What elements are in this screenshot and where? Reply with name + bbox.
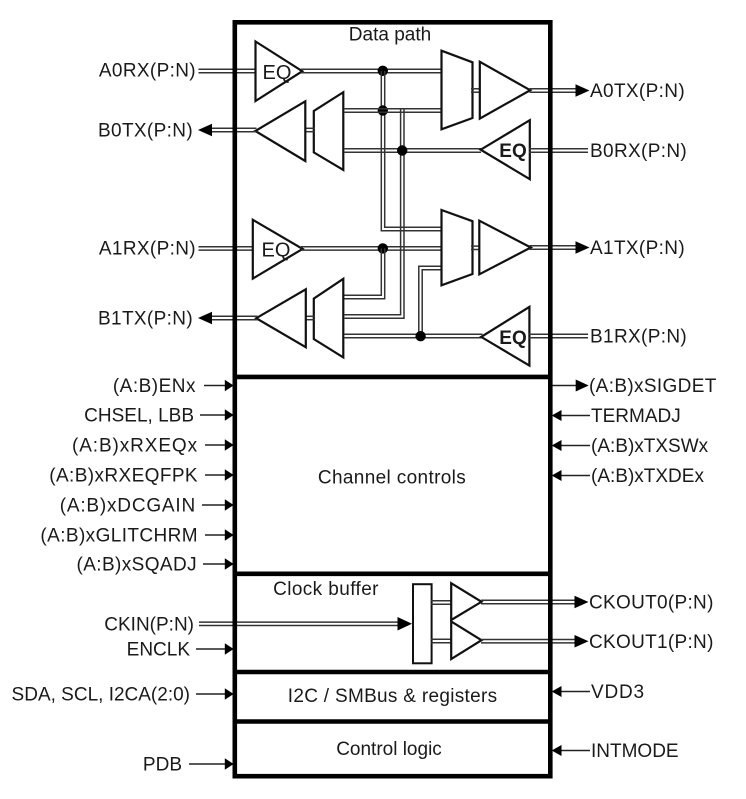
- svg-text:CKIN(P:N): CKIN(P:N): [104, 615, 194, 636]
- label Clock buffer: [273, 579, 379, 600]
- svg-text:B1TX(P:N): B1TX(P:N): [98, 309, 193, 330]
- svg-text:SDA, SCL, I2CA(2:0): SDA, SCL, I2CA(2:0): [12, 685, 190, 706]
- label SDA, SCL, I2CA(2:0): [12, 685, 190, 706]
- svg-text:(A:B)xRXEQFPK: (A:B)xRXEQFPK: [49, 466, 198, 487]
- mux trapezoid A1TX select: [442, 210, 473, 285]
- wire PDB control line: [189, 763, 227, 765]
- divider: channel controls / clock buffer: [233, 571, 553, 576]
- arrow INTMODE into chip: [552, 745, 562, 756]
- wire A1RX input pair: [199, 247, 256, 250]
- wire (A:B)xTXSWx control line: [559, 445, 590, 447]
- arrow B0TX output: [198, 124, 212, 137]
- wire (A:B)xDCGAIN control line: [202, 504, 227, 506]
- arrow VDD3 into chip: [552, 686, 562, 697]
- wire A1 mux to driver pair: [471, 246, 481, 249]
- label (A:B)xRXEQFPK: [49, 466, 198, 487]
- arrow (A:B)xGLITCHRM into chip: [225, 529, 234, 540]
- label (A:B)xSQADJ: [76, 555, 197, 576]
- arrow CKOUT0 output: [575, 596, 589, 609]
- arrow (A:B)xSIGDET out of chip: [576, 380, 589, 392]
- arrow A0TX output: [576, 84, 590, 97]
- wire (A:B)xSIGDET line: [553, 385, 578, 387]
- wire B0RX input pair: [529, 149, 588, 152]
- wire B1 mux output pair: [305, 316, 315, 319]
- arrow (A:B)xTXSWx into chip: [552, 440, 562, 451]
- svg-text:I2C / SMBus & registers: I2C / SMBus & registers: [288, 686, 498, 707]
- wire B0TX output pair: [211, 128, 257, 131]
- output driver B1TX: [256, 289, 306, 347]
- svg-text:(A:B)xSQADJ: (A:B)xSQADJ: [76, 555, 197, 576]
- wire (A:B)xGLITCHRM control line: [205, 534, 227, 536]
- arrow CKIN into clock mux: [398, 617, 413, 631]
- divider: clock buffer / I2C registers: [233, 670, 553, 675]
- mux trapezoid A0TX select: [442, 51, 473, 130]
- divider: I2C registers / control logic: [233, 719, 553, 724]
- arrow SDA SCL I2CA into chip: [225, 688, 234, 699]
- wire (A:B)xTXDEx control line: [559, 475, 590, 477]
- wire B0 mux output pair: [305, 128, 315, 131]
- arrow CHSEL, LBB into chip: [225, 409, 234, 420]
- label ENCLK: [127, 640, 191, 661]
- label (A:B)xDCGAIN: [60, 496, 196, 517]
- label VDD3: [591, 682, 645, 703]
- output driver A1TX: [479, 221, 531, 275]
- wire vertical V3 from A1EQ down to B1 mux: [344, 248, 385, 298]
- arrow (A:B)xRXEQFPK into chip: [225, 469, 234, 480]
- label (A:B)ENx: [113, 376, 196, 397]
- label I2C / SMBus &amp; registers: [288, 686, 498, 707]
- svg-text:(A:B)xGLITCHRM: (A:B)xGLITCHRM: [40, 526, 198, 547]
- svg-text:A1TX(P:N): A1TX(P:N): [590, 238, 685, 259]
- EQ amplifier B0 (receive equalizer): [481, 120, 530, 179]
- arrow (A:B)xTXDEx into chip: [552, 470, 562, 481]
- wire CKIN input pair: [199, 622, 399, 625]
- IC outer boundary box: [235, 22, 551, 776]
- arrow (A:B)ENx into chip: [225, 380, 234, 391]
- wire A0 EQ output pair to mux: [301, 69, 443, 72]
- label B0RX(P:N): [590, 141, 687, 162]
- arrow CKOUT1 output: [575, 635, 589, 648]
- wire (A:B)xSQADJ control line: [203, 563, 227, 565]
- wire A1TX output pair: [530, 246, 578, 249]
- svg-text:EQ: EQ: [499, 141, 526, 162]
- svg-text:A0TX(P:N): A0TX(P:N): [590, 81, 685, 102]
- svg-text:B0RX(P:N): B0RX(P:N): [590, 141, 687, 162]
- svg-text:Data path: Data path: [349, 25, 431, 46]
- wire TERMADJ control line: [559, 415, 590, 417]
- mux trapezoid B0TX select: [314, 92, 344, 170]
- label Data path: [349, 25, 431, 46]
- svg-text:ENCLK: ENCLK: [127, 640, 191, 661]
- svg-text:(A:B)ENx: (A:B)ENx: [113, 376, 196, 397]
- wire B0 mux top input pair: [345, 109, 443, 112]
- arrow PDB into chip: [225, 758, 234, 769]
- wire vertical V5 from B1RX line up to A1 mux: [419, 266, 442, 337]
- svg-text:PDB: PDB: [143, 755, 182, 776]
- wire (A:B)xRXEQFPK control line: [205, 474, 227, 476]
- clock output buffer 1: [451, 622, 481, 660]
- svg-text:CKOUT1(P:N): CKOUT1(P:N): [589, 632, 714, 653]
- label INTMODE: [591, 741, 679, 762]
- svg-text:CHSEL, LBB: CHSEL, LBB: [84, 406, 194, 427]
- svg-text:INTMODE: INTMODE: [591, 741, 679, 762]
- label TERMADJ: [591, 406, 681, 427]
- wire A1 EQ output pair to mux: [301, 247, 443, 250]
- wire A0RX input pair: [199, 69, 258, 72]
- svg-text:B1RX(P:N): B1RX(P:N): [590, 327, 687, 348]
- label (A:B)xGLITCHRM: [40, 526, 198, 547]
- label (A:B)xRXEQx: [72, 436, 198, 457]
- svg-text:(A:B)xSIGDET: (A:B)xSIGDET: [589, 376, 717, 397]
- wire clock mux to buffer 0: [431, 601, 452, 604]
- junction dot node A0EQ: [378, 66, 388, 76]
- label A1TX(P:N): [590, 238, 685, 259]
- label CKOUT0(P:N): [589, 592, 714, 613]
- EQ amplifier B1 (receive equalizer): [481, 307, 529, 366]
- svg-text:(A:B)xTXDEx: (A:B)xTXDEx: [591, 466, 704, 487]
- junction dot node B1EQ-V5: [415, 331, 425, 341]
- wire CKOUT0 output pair: [481, 600, 576, 603]
- svg-text:Clock buffer: Clock buffer: [273, 579, 379, 600]
- wire vertical crossover V2 from B0EQ line down to B1 mux: [345, 109, 405, 318]
- svg-text:B0TX(P:N): B0TX(P:N): [98, 121, 193, 142]
- wire VDD3 line: [559, 691, 590, 693]
- label Channel controls: [318, 468, 466, 489]
- junction dot node V1-B0 tap: [378, 105, 388, 115]
- svg-text:TERMADJ: TERMADJ: [591, 406, 681, 427]
- wire CHSEL, LBB control line: [200, 414, 227, 416]
- wire A0 mux to driver pair: [471, 89, 481, 92]
- wire B1TX output pair: [211, 316, 258, 319]
- EQ amplifier A1 (receive equalizer): [253, 220, 303, 279]
- junction dot node B0EQ-V2: [397, 145, 407, 155]
- junction dot node A1EQ: [378, 243, 388, 253]
- wire INTMODE line: [559, 750, 590, 752]
- output driver A0TX: [480, 62, 530, 119]
- wire CKOUT1 output pair: [481, 640, 576, 643]
- arrow (A:B)xDCGAIN into chip: [225, 499, 234, 510]
- wire ENCLK control line: [196, 648, 227, 650]
- wire B1RX inside pair from EQ to mux: [345, 334, 483, 337]
- svg-text:(A:B)xTXSWx: (A:B)xTXSWx: [591, 436, 709, 457]
- clock mux rectangle: [413, 584, 432, 663]
- label CKOUT1(P:N): [589, 632, 714, 653]
- label B0TX(P:N): [98, 121, 193, 142]
- wire B1RX input pair: [529, 334, 588, 337]
- output driver B0TX: [255, 101, 305, 161]
- wire A0TX output pair: [530, 89, 578, 92]
- label B1TX(P:N): [98, 309, 193, 330]
- svg-text:(A:B)xDCGAIN: (A:B)xDCGAIN: [60, 496, 196, 517]
- label B1RX(P:N): [590, 327, 687, 348]
- label A1RX(P:N): [99, 239, 196, 260]
- arrow ENCLK into chip: [225, 643, 234, 654]
- label PDB: [143, 755, 182, 776]
- clock output buffer 0: [451, 583, 481, 620]
- wire (A:B)xRXEQx control line: [205, 444, 227, 446]
- svg-text:(A:B)xRXEQx: (A:B)xRXEQx: [72, 436, 198, 457]
- arrow TERMADJ into chip: [552, 410, 562, 421]
- divider: data path / channel controls: [233, 375, 553, 380]
- svg-text:Channel controls: Channel controls: [318, 468, 466, 489]
- label (A:B)xTXSWx: [591, 436, 709, 457]
- svg-text:A0RX(P:N): A0RX(P:N): [99, 61, 196, 82]
- svg-text:CKOUT0(P:N): CKOUT0(P:N): [589, 592, 714, 613]
- mux trapezoid B1TX select: [314, 279, 344, 358]
- label (A:B)xSIGDET: [589, 376, 717, 397]
- wire vertical crossover V1 from A0EQ to A1 mux: [381, 71, 442, 231]
- svg-text:A1RX(P:N): A1RX(P:N): [99, 239, 196, 260]
- wire (A:B)ENx control line: [204, 385, 227, 387]
- svg-text:VDD3: VDD3: [591, 682, 645, 703]
- svg-text:EQ: EQ: [499, 328, 526, 349]
- wire SDA SCL I2CA control line: [196, 693, 227, 695]
- label (A:B)xTXDEx: [591, 466, 704, 487]
- svg-text:EQ: EQ: [262, 240, 291, 262]
- arrow (A:B)xSQADJ into chip: [225, 558, 234, 569]
- arrow B1TX output: [198, 312, 212, 325]
- label A0TX(P:N): [590, 81, 685, 102]
- label A0RX(P:N): [99, 61, 196, 82]
- label CHSEL, LBB: [84, 406, 194, 427]
- EQ amplifier A0 (receive equalizer): [256, 42, 303, 102]
- arrow (A:B)xRXEQx into chip: [225, 439, 234, 450]
- wire clock mux to buffer 1: [431, 639, 452, 642]
- label Control logic: [336, 739, 442, 760]
- svg-text:Control logic: Control logic: [336, 739, 442, 760]
- wire B0RX inside pair from EQ to mux: [345, 149, 482, 152]
- svg-text:EQ: EQ: [263, 62, 292, 84]
- label CKIN(P:N): [104, 615, 194, 636]
- arrow A1TX output: [576, 241, 590, 254]
